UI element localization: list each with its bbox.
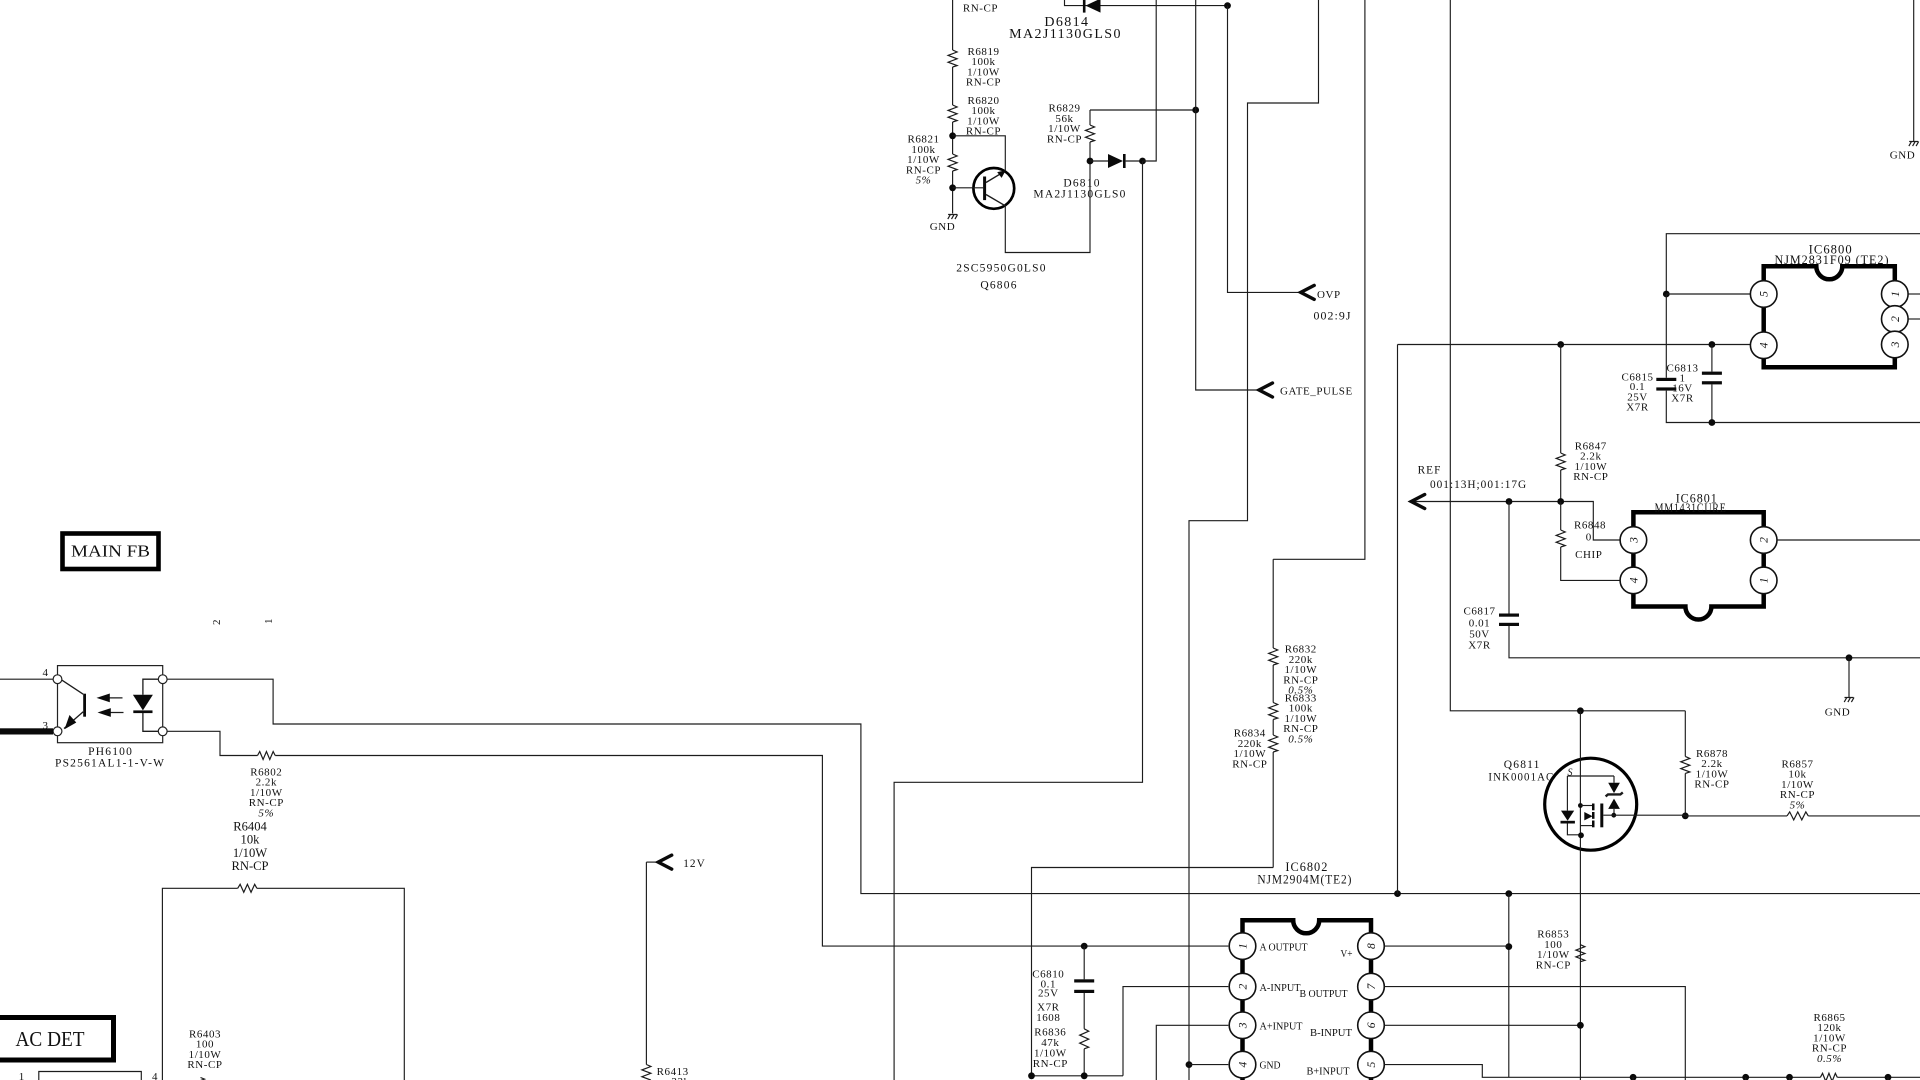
svg-text:B+INPUT: B+INPUT [1307, 1065, 1350, 1077]
svg-text:R6848: R6848 [1574, 520, 1606, 532]
wire A-INPUT net [1123, 987, 1228, 1076]
wire PH6100 collector out to long bottom rail [167, 679, 1920, 893]
wire IC6802 pin6 B-INPUT [1384, 1024, 1580, 1026]
node bottom rail stub 2 [1742, 1074, 1749, 1080]
node rail/IC6800-frame junction [1394, 890, 1401, 897]
wire divider column [1272, 559, 1274, 867]
node R6878/R6857 junction [1682, 813, 1689, 820]
svg-text:12V: 12V [683, 858, 705, 870]
svg-text:CHIP: CHIP [1575, 549, 1602, 561]
pin 3 [1229, 1012, 1256, 1039]
connector arrow GATE_PULSE [1259, 383, 1273, 397]
svg-text:2: 2 [1889, 316, 1902, 322]
wire Q6811 drain out [1603, 814, 1685, 816]
svg-text:GND: GND [1825, 706, 1850, 718]
connector arrow 12V [646, 861, 658, 863]
svg-text:X7R: X7R [1468, 639, 1491, 651]
node R6829/gate-pulse junction [1192, 107, 1199, 114]
svg-text:Q6811: Q6811 [1504, 759, 1541, 771]
wire Q6806 collector to top junction [953, 136, 1006, 171]
svg-text:1: 1 [1758, 578, 1771, 584]
node bottom rail stub 1 [1630, 1074, 1637, 1080]
svg-text:1608: 1608 [1036, 1012, 1060, 1024]
svg-text:AC DET: AC DET [16, 1027, 85, 1051]
svg-text:25V: 25V [1038, 988, 1059, 1000]
svg-text:RN-CP: RN-CP [231, 859, 268, 873]
svg-text:A+INPUT: A+INPUT [1260, 1021, 1303, 1033]
svg-text:INK0001AC: INK0001AC [1488, 772, 1554, 784]
svg-text:8: 8 [1365, 943, 1378, 949]
pin 3 [1620, 527, 1647, 554]
resistor R6836 [1080, 1029, 1089, 1049]
optocoupler PH6100 PS2561AL1-1-V-W [58, 666, 163, 743]
node OVP net junction [1224, 2, 1231, 9]
wire D6814 net [1065, 0, 1228, 6]
svg-text:GND: GND [1260, 1060, 1281, 1072]
wire net to IC6802 GND column (from top) [1189, 0, 1319, 1080]
node Q6811 internal junction [1578, 832, 1584, 838]
svg-text:1/10W: 1/10W [233, 846, 267, 860]
label AC DET [0, 1018, 114, 1061]
svg-text:4: 4 [1627, 577, 1640, 583]
pin 2 [1229, 973, 1256, 1000]
transistor Q6811 INK0001AC [1545, 758, 1637, 850]
svg-text:0.5%: 0.5% [1817, 1053, 1842, 1065]
node C6813 bottom junction [1709, 419, 1716, 426]
diode D6810 MA2J1130GLS0 [1090, 160, 1108, 162]
wire IC6802 pin7 B OUTPUT [1384, 987, 1685, 1080]
svg-text:MA2J1130GLS0: MA2J1130GLS0 [1009, 27, 1122, 42]
svg-text:5%: 5% [258, 807, 274, 819]
resistor R6802 [167, 731, 1228, 946]
svg-text:4: 4 [1758, 342, 1771, 348]
svg-text:MM1431CURE: MM1431CURE [1655, 501, 1727, 515]
label MAIN FB [63, 534, 159, 570]
svg-text:1: 1 [1237, 943, 1250, 949]
node R6821 top junction [949, 132, 956, 139]
svg-text:RN-CP: RN-CP [1536, 959, 1571, 971]
capacitor C6815 [1665, 294, 1667, 378]
node IC6802 pin4 GND junction [1186, 1061, 1193, 1068]
svg-text:R6404: R6404 [233, 819, 267, 833]
svg-text:Q6806: Q6806 [980, 280, 1017, 292]
svg-text:GND: GND [1890, 150, 1915, 162]
wire PH6100 pin4 [0, 678, 53, 680]
pin 8 [1358, 933, 1385, 960]
resistor R6833 [1269, 703, 1278, 720]
wire IC6802 pin5 B+INPUT to bottom rail [1384, 1065, 1820, 1078]
svg-text:5%: 5% [916, 175, 932, 187]
node bottom rail stub 4 [1885, 1074, 1892, 1080]
capacitor C6810 [1083, 946, 1085, 979]
node R6848 top junction [1557, 498, 1564, 505]
pin 5 [1750, 281, 1777, 308]
wire column x=952.6 top [952, 0, 954, 214]
op-amp IC6801 MM1431CURE [1633, 512, 1763, 619]
svg-text:3: 3 [1889, 341, 1902, 348]
svg-text:3: 3 [1627, 537, 1640, 544]
wire A+INPUT net [1156, 1025, 1228, 1080]
wire bottom-left mini rail [1032, 1075, 1124, 1077]
svg-text:NJM2831F09 (TE2): NJM2831F09 (TE2) [1775, 253, 1890, 267]
svg-text:0.5%: 0.5% [1288, 733, 1313, 745]
node V+ / pin8 junction [1505, 943, 1512, 950]
node IC6800 pin5 junction [1663, 291, 1670, 298]
svg-text:1: 1 [19, 1071, 25, 1080]
pin 2 [1882, 306, 1909, 333]
wire IC6800 frame left drop to rail [1397, 345, 1399, 894]
svg-text:10k: 10k [241, 833, 261, 847]
resistor R6404 [162, 888, 404, 1080]
pin 1 [1229, 933, 1256, 960]
wire thick bus into PH6100 pin3 [0, 728, 53, 734]
resistor R6832 [1269, 648, 1278, 665]
resistor R6413 (cut at bottom) [645, 862, 647, 1064]
node bottom rail stub 3 [1786, 1074, 1793, 1080]
svg-text:A-INPUT: A-INPUT [1260, 982, 1301, 994]
wire IC6802 pin4 GND stub [1189, 1064, 1228, 1066]
svg-text:PS2561AL1-1-V-W: PS2561AL1-1-V-W [55, 757, 165, 769]
svg-text:33k: 33k [671, 1076, 689, 1080]
pin 1 [1882, 281, 1909, 308]
pin 3 [1882, 331, 1909, 358]
resistor R6865 [1820, 1073, 1837, 1080]
op-amp IC6800 NJM2831F09 (TE2) [1764, 266, 1895, 367]
node C6810 top junction [1081, 943, 1088, 950]
svg-text:RN-CP: RN-CP [1232, 758, 1267, 770]
wire GATE_PULSE net [1196, 0, 1260, 390]
pin 4 [1620, 567, 1647, 594]
ground GND under R6821 [948, 215, 958, 220]
svg-text:2SC5950G0LS0: 2SC5950G0LS0 [956, 263, 1046, 275]
pin 7 [1358, 973, 1385, 1000]
svg-text:002:9J: 002:9J [1314, 311, 1352, 323]
svg-text:GATE_PULSE: GATE_PULSE [1280, 385, 1353, 397]
op-amp IC6802 NJM2904M(TE2) [1243, 920, 1372, 1080]
svg-text:S: S [1568, 768, 1574, 779]
connector arrow REF [1411, 502, 1620, 541]
node Q6806 base junction [949, 184, 956, 191]
pin 5 [1358, 1051, 1385, 1078]
svg-text:OVP: OVP [1317, 289, 1341, 301]
pin 6 [1358, 1012, 1385, 1039]
node C6817 top junction [1506, 498, 1513, 505]
svg-text:RN-CP: RN-CP [1573, 471, 1608, 483]
svg-text:5%: 5% [1790, 799, 1806, 811]
svg-text:V+: V+ [1341, 948, 1353, 960]
svg-text:3: 3 [1237, 1022, 1250, 1029]
svg-text:A OUTPUT: A OUTPUT [1260, 942, 1308, 954]
svg-text:GND: GND [930, 221, 955, 233]
svg-text:2: 2 [1758, 537, 1771, 543]
pin 4 [1229, 1051, 1256, 1078]
svg-text:X7R: X7R [1626, 401, 1649, 413]
svg-text:RN-CP: RN-CP [1047, 133, 1082, 145]
wire D6810 cathode up to top edge [1143, 0, 1157, 161]
wire IC6800 pin1 out [1908, 293, 1920, 295]
wire divider bottom across to C6810 column [1032, 868, 1274, 1076]
svg-text:C6817: C6817 [1463, 606, 1495, 618]
pin 1 [1750, 567, 1777, 594]
svg-text:0: 0 [1586, 532, 1592, 544]
svg-text:5: 5 [1758, 291, 1771, 297]
node D6810 cathode junction [1139, 158, 1146, 165]
wire IC6802 pin8 V+ [1384, 945, 1509, 947]
resistor R6829 [1090, 110, 1196, 161]
resistor R6848 [1560, 502, 1562, 531]
connector box bottom-left [39, 1072, 142, 1080]
resistor R6819 [948, 50, 957, 67]
wire top feed to IC6800 [1666, 234, 1920, 294]
resistor R6847 [1560, 345, 1562, 454]
svg-text:B OUTPUT: B OUTPUT [1300, 988, 1348, 1000]
svg-text:5: 5 [1365, 1061, 1378, 1067]
wire IC6801 pin2 out [1777, 539, 1920, 541]
node mini-rail left junction [1028, 1072, 1035, 1079]
svg-text:2: 2 [1237, 983, 1250, 989]
svg-text:4: 4 [1237, 1061, 1250, 1067]
svg-text:2: 2 [211, 619, 223, 625]
svg-text:NJM2904M(TE2): NJM2904M(TE2) [1257, 872, 1352, 886]
resistor R6853 [1508, 894, 1510, 1078]
node Q6811 source junction [1577, 707, 1584, 714]
svg-text:RN-CP: RN-CP [1033, 1058, 1068, 1070]
svg-text:MA2J1130GLS0: MA2J1130GLS0 [1033, 189, 1126, 201]
node C6813 top junction [1709, 341, 1716, 348]
node B-INPUT junction [1577, 1022, 1584, 1029]
transistor Q6806 2SC5950G0LS0 [973, 168, 1014, 209]
svg-text:MAIN FB: MAIN FB [71, 542, 150, 561]
node D6810 anode junction [1087, 158, 1094, 165]
svg-text:REF: REF [1418, 464, 1442, 476]
svg-text:001:13H;001:17G: 001:13H;001:17G [1430, 479, 1527, 491]
node R6847 top junction [1557, 341, 1564, 348]
wire IC6800 pin4 line [1398, 344, 1751, 346]
resistor R6821 [948, 154, 957, 171]
pin 2 [1750, 527, 1777, 554]
svg-text:4: 4 [152, 1071, 158, 1080]
svg-text:6: 6 [1365, 1022, 1378, 1028]
diode D6814 MA2J1130GLS0 [1086, 0, 1101, 13]
svg-text:B-INPUT: B-INPUT [1310, 1027, 1352, 1039]
svg-text:1: 1 [1889, 291, 1902, 297]
node rail/V+ junction [1505, 890, 1512, 897]
node GND junction [1846, 654, 1853, 661]
svg-text:PH6100: PH6100 [88, 746, 133, 758]
resistor R6857 [1685, 815, 1787, 817]
svg-text:X7R: X7R [1671, 393, 1694, 405]
wire Q6806 emitter down and right to D6810 anode [1005, 161, 1090, 253]
ground GND top right [1913, 0, 1915, 141]
wire net to R6832 divider (from top) [1273, 0, 1365, 559]
resistor R6834 [1269, 735, 1278, 752]
wire IC6800 pin2 out [1908, 318, 1920, 320]
svg-text:RN-CP: RN-CP [1694, 779, 1729, 791]
wire IC6800 pin5 [1666, 293, 1750, 295]
wire OVP net [1228, 6, 1302, 293]
resistor R6878 [1684, 711, 1686, 757]
svg-text:RN-CP: RN-CP [966, 77, 1001, 89]
svg-text:RN-CP: RN-CP [187, 1059, 222, 1071]
wire left frame down to Q6811 [1450, 0, 1685, 711]
svg-text:RN-CP: RN-CP [963, 2, 998, 14]
capacitor C6817 [1508, 502, 1510, 614]
resistor R6820 [948, 105, 957, 122]
connector arrow OVP [1301, 285, 1315, 299]
node mini-rail C6810 junction [1081, 1072, 1088, 1079]
svg-text:1: 1 [263, 618, 275, 624]
wire D6810 cathode long run down-left to page bottom [894, 161, 1142, 1080]
pin 4 [1750, 332, 1777, 359]
svg-text:4: 4 [42, 667, 48, 679]
